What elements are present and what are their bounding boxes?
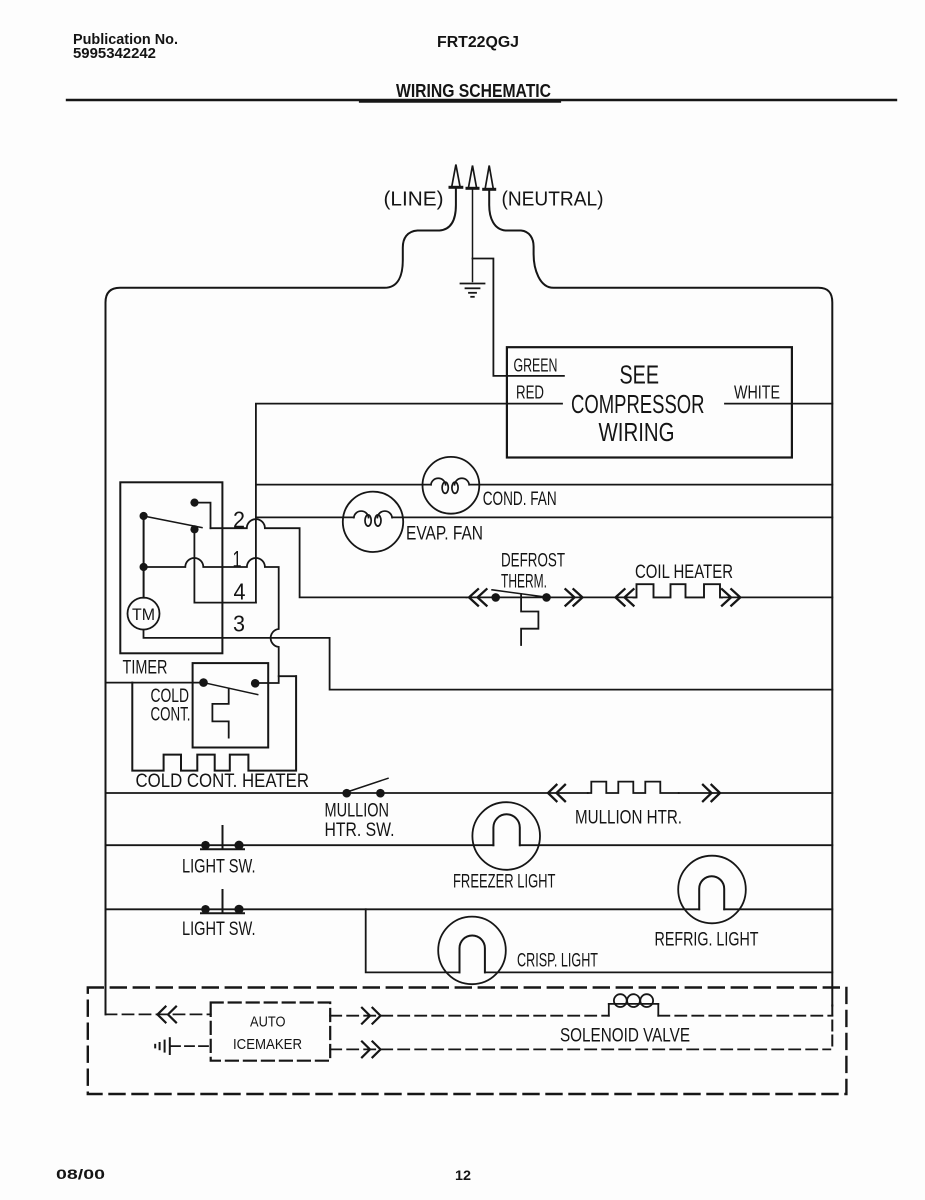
- icemaker box (dashed): [211, 1003, 331, 1061]
- header: publication number: [73, 32, 551, 101]
- svg-text:WIRING: WIRING: [599, 417, 675, 447]
- svg-text:TM: TM: [132, 605, 155, 624]
- connector chevrons (right of coil heater): [722, 589, 740, 605]
- label AUTO ICEMAKER: [233, 1015, 302, 1054]
- svg-text:COLD CONT. HEATER: COLD CONT. HEATER: [136, 771, 310, 792]
- svg-text:LIGHT SW.: LIGHT SW.: [182, 857, 256, 878]
- svg-text:LIGHT SW.: LIGHT SW.: [182, 919, 256, 940]
- wire: evaporator fan branch: [256, 516, 832, 518]
- svg-text:RED: RED: [516, 382, 544, 403]
- plug prong center (arrow): [467, 166, 478, 189]
- wire: cold control right contact jog: [255, 676, 279, 683]
- defrost thermostat element (staircase): [521, 594, 538, 645]
- svg-text:MULLION: MULLION: [325, 801, 390, 822]
- wire: terminal 2 jog inside timer: [195, 503, 211, 529]
- connector chevrons (right of mullion heater): [703, 785, 720, 801]
- lamp CRISP. LIGHT arch: [460, 935, 485, 972]
- wire: icemaker output 1 (dashed, through solenoid): [330, 1015, 832, 1017]
- wire: left rail to cold control: [106, 682, 201, 684]
- svg-text:REFRIG. LIGHT: REFRIG. LIGHT: [655, 930, 759, 951]
- svg-text:SEE: SEE: [620, 360, 660, 390]
- svg-text:GREEN: GREEN: [514, 355, 558, 376]
- wire: RED lead and power rail down to terminal 4: [256, 404, 562, 603]
- svg-text:ICEMAKER: ICEMAKER: [233, 1037, 302, 1053]
- wire: left rail dashed feed to icemaker: [106, 1013, 211, 1015]
- connector chevrons (right of defrost therm): [566, 589, 583, 605]
- wire: mullion heater row: [106, 792, 833, 794]
- svg-text:CRISP. LIGHT: CRISP. LIGHT: [517, 951, 598, 972]
- svg-text:COIL HEATER: COIL HEATER: [635, 562, 733, 583]
- footer: date and page: [56, 1166, 471, 1183]
- lamp circle FREEZER LIGHT: [472, 802, 540, 870]
- timer box: [120, 482, 222, 653]
- svg-text:COMPRESSOR: COMPRESSOR: [571, 389, 705, 419]
- lamp circle CRISP. LIGHT: [438, 917, 506, 985]
- svg-text:HTR. SW.: HTR. SW.: [325, 820, 395, 841]
- ground symbol: [461, 284, 485, 297]
- svg-text:FREEZER LIGHT: FREEZER LIGHT: [453, 872, 556, 893]
- connector chevrons (icemaker feed): [158, 1007, 177, 1023]
- solenoid valve coil: [609, 994, 659, 1016]
- timer contact dot (terminal 1): [140, 563, 148, 571]
- svg-text:CONT.: CONT.: [151, 705, 191, 726]
- connector chevrons (left of mullion heater): [548, 785, 565, 801]
- svg-text:TIMER: TIMER: [123, 658, 168, 679]
- mullion switch contact dot right: [376, 789, 385, 798]
- connector chevrons (icemaker output 1): [362, 1008, 381, 1024]
- light switch 2 contact dot right: [234, 905, 243, 914]
- motor circle EVAP FAN: [343, 492, 403, 552]
- svg-text:1: 1: [233, 546, 242, 572]
- wire: ground branch to GREEN terminal: [473, 259, 564, 376]
- cold control thermal element (staircase): [212, 689, 228, 738]
- wire: NEUTRAL prong to right rail (enclosure right side): [489, 190, 832, 1006]
- header rule: [67, 99, 896, 101]
- svg-text:WIRING SCHEMATIC: WIRING SCHEMATIC: [396, 81, 551, 101]
- svg-text:FRT22QGJ: FRT22QGJ: [437, 34, 519, 51]
- wire: refrigerator light row: [106, 908, 833, 910]
- wire: freezer light row: [106, 844, 833, 846]
- connector chevrons (left of defrost therm): [469, 589, 487, 605]
- defrost thermostat arm: [492, 590, 547, 597]
- resistor: coil heater: [634, 584, 723, 597]
- wire: center prong to ground: [472, 190, 474, 282]
- wire: right rail dashed continuation: [831, 1006, 833, 1051]
- svg-text:EVAP. FAN: EVAP. FAN: [406, 524, 483, 545]
- plug prong LINE (arrow): [450, 165, 462, 188]
- wire: terminal 2 to defrost row (hops power rail): [211, 519, 467, 597]
- dashed icemaker enclosure: [88, 988, 847, 1095]
- cold control switch arm: [204, 683, 258, 695]
- connector chevrons (icemaker output 2): [362, 1042, 381, 1058]
- svg-text:AUTO: AUTO: [250, 1015, 286, 1031]
- svg-text:08/00: 08/00: [56, 1166, 105, 1182]
- cold control contact dot right: [251, 679, 260, 688]
- lamp circle REFRIG. LIGHT: [678, 856, 746, 924]
- wire: WHITE lead to right rail: [725, 403, 832, 405]
- ground symbol (icemaker): [155, 1038, 170, 1054]
- motor circle COND FAN: [423, 457, 480, 514]
- label DEFROST THERM.: [501, 551, 565, 593]
- lamp REFRIG. LIGHT arch: [699, 876, 724, 909]
- lamp FREEZER LIGHT arch: [493, 814, 519, 845]
- mullion switch arm: [350, 778, 388, 791]
- light switch 2 bridge and plunger: [201, 890, 244, 913]
- wire: crisper light branch: [366, 909, 833, 972]
- svg-text:3: 3: [233, 611, 245, 637]
- label MULLION HTR. SW.: [325, 801, 395, 842]
- wire: icemaker ground lead (dashed): [171, 1045, 211, 1047]
- wire: condenser fan branch: [256, 484, 832, 486]
- timer contact dot (arm pivot): [140, 512, 148, 520]
- motor coil EVAP FAN loops: [354, 511, 392, 526]
- connector chevrons (left of coil heater): [616, 589, 634, 605]
- mullion switch contact dot left: [342, 789, 351, 798]
- cold control box: [193, 663, 269, 747]
- wire: TM motor return to right rail (terminal 3): [144, 630, 833, 690]
- light switch 1 contact dot left: [201, 841, 210, 850]
- svg-text:COND. FAN: COND. FAN: [483, 489, 557, 510]
- wire: terminal 1 with hops, down left side: [144, 558, 297, 676]
- cold control contact dot left: [199, 678, 208, 687]
- timer switch arm: [144, 516, 202, 528]
- defrost thermostat contact dot right: [542, 593, 551, 602]
- svg-text:WHITE: WHITE: [734, 382, 780, 403]
- svg-text:SOLENOID VALVE: SOLENOID VALVE: [560, 1026, 690, 1047]
- timer contact dot (terminal 2 top): [190, 499, 198, 507]
- svg-text:THERM.: THERM.: [501, 572, 547, 593]
- wire: LINE prong to left rail (enclosure left side): [106, 189, 456, 1015]
- resistor: cold control heater loop: [132, 676, 296, 770]
- svg-text:4: 4: [234, 579, 246, 605]
- wire: defrost therm to coil heater: [467, 596, 833, 598]
- svg-text:(NEUTRAL): (NEUTRAL): [502, 189, 604, 211]
- light switch 1 contact dot right: [234, 841, 243, 850]
- timer contact dot (terminal 4 middle): [190, 525, 198, 533]
- label SEE COMPRESSOR WIRING: [571, 360, 705, 448]
- wire: icemaker output 2 (dashed return): [330, 1048, 830, 1050]
- timer motor TM circle: [128, 598, 160, 630]
- svg-text:12: 12: [455, 1167, 471, 1183]
- light switch 1 bridge and plunger: [201, 826, 244, 849]
- label COLD CONT.: [151, 686, 191, 726]
- wire: terminal 4 from middle dot: [194, 529, 256, 602]
- motor coil COND FAN loops: [431, 478, 469, 493]
- plug prong NEUTRAL (arrow): [484, 166, 495, 190]
- resistor: mullion heater: [588, 782, 679, 793]
- defrost thermostat contact dot left: [491, 593, 500, 602]
- svg-text:MULLION HTR.: MULLION HTR.: [575, 808, 682, 829]
- svg-text:(LINE): (LINE): [384, 189, 444, 211]
- svg-text:5995342242: 5995342242: [73, 46, 156, 62]
- light switch 2 contact dot left: [201, 905, 210, 914]
- svg-text:DEFROST: DEFROST: [501, 551, 565, 572]
- wire: timer pivot to TM motor: [143, 516, 145, 598]
- compressor box U1: [507, 347, 792, 457]
